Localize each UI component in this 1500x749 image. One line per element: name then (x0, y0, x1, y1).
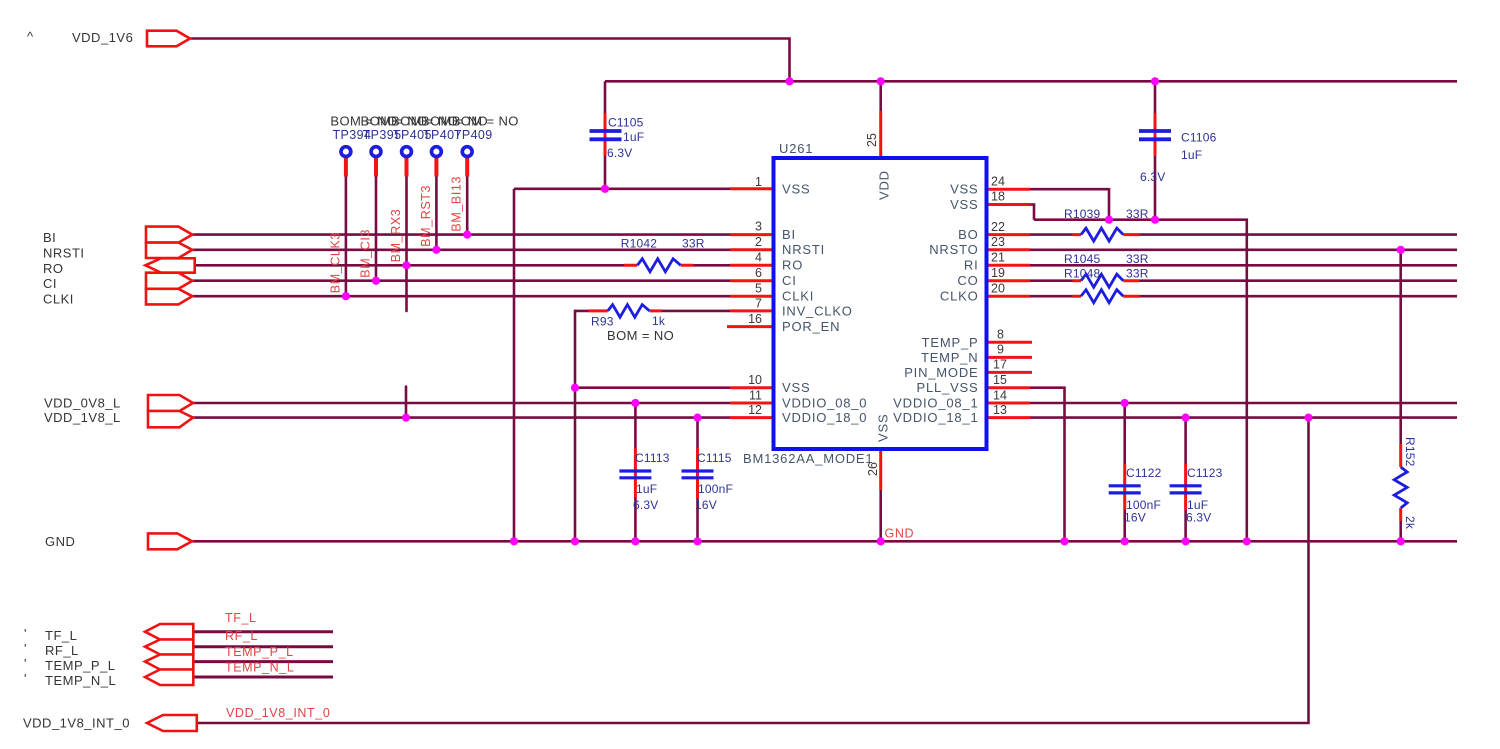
wire PLL_VSS net (1030, 388, 1065, 542)
junction C1106 top (1151, 77, 1159, 85)
svg-text:16V: 16V (695, 498, 717, 512)
port RF_L (145, 640, 193, 655)
wire C1123 upper leg (1184, 418, 1187, 464)
junction C1123 top (1182, 414, 1190, 422)
svg-text:CLKI: CLKI (43, 292, 74, 307)
svg-text:INV_CLKO: INV_CLKO (782, 304, 853, 319)
svg-text:U261: U261 (779, 141, 813, 156)
junction VSS24 corner (1105, 216, 1113, 224)
port GND (148, 533, 192, 549)
pin 3 stub (730, 233, 774, 236)
wire C1115 lower leg (696, 498, 699, 541)
wire top VDD bus (605, 80, 1457, 83)
capacitor C1105 (590, 131, 622, 139)
wire TP407 vertical (435, 175, 438, 250)
port TEMP_P_L (145, 655, 193, 670)
port CLKI (146, 289, 192, 305)
pin 11 stub (730, 402, 774, 405)
svg-text:TP409: TP409 (454, 128, 493, 142)
junction C1105 bottom (601, 185, 609, 193)
junction VDD pin25 (877, 77, 885, 85)
testpoint TP394 (341, 147, 351, 157)
svg-text:GND: GND (45, 534, 75, 549)
svg-text:6.3V: 6.3V (1140, 170, 1166, 184)
R152 leads (1399, 444, 1402, 521)
junction GND VSS bus (1243, 537, 1251, 545)
svg-text:6.3V: 6.3V (633, 498, 659, 512)
wire TP395 vertical (375, 175, 378, 281)
pin 10 stub (730, 386, 774, 389)
svg-text:RI: RI (964, 258, 979, 273)
wire C1106 lower leg (1154, 156, 1157, 220)
wire pin1 VSS bus (514, 188, 730, 191)
svg-text:1: 1 (755, 175, 762, 189)
wire VSS bus to GND (1034, 220, 1247, 542)
wire pin26 lower leg (879, 490, 882, 541)
svg-text:11: 11 (749, 388, 762, 402)
wire VDDIO_08_1 net (1030, 402, 1457, 405)
svg-text:NRSTO: NRSTO (929, 242, 978, 257)
wire C1123 lower leg (1184, 510, 1187, 541)
svg-text:TEMP_P: TEMP_P (922, 335, 979, 350)
pin 23 stub (987, 248, 1031, 251)
wire RI net (1030, 264, 1457, 267)
svg-text:VDD_0V8_L: VDD_0V8_L (44, 396, 121, 411)
svg-text:VSS: VSS (950, 197, 978, 212)
wire VDD pin25 upper leg (879, 81, 882, 111)
resistor R152 (1394, 467, 1407, 508)
svg-text:TEMP_N_L: TEMP_N_L (45, 673, 116, 688)
svg-text:CLKI: CLKI (782, 289, 814, 304)
wire CLKO net right (1140, 295, 1458, 298)
pin 16 stub POR_EN (727, 325, 774, 328)
wire stub to VDD_1V8_L (405, 387, 408, 418)
svg-text:BI: BI (43, 230, 56, 245)
wire TP405 vertical (405, 175, 408, 311)
port RO (145, 258, 194, 272)
TP395 stub (374, 158, 378, 177)
svg-text:18: 18 (991, 190, 1005, 204)
pin 26 stub VSS (879, 449, 882, 490)
wire VDD_1V8_INT_0 net (197, 418, 1309, 723)
svg-text:R1048: R1048 (1064, 267, 1100, 281)
wire C1115 upper leg (696, 418, 699, 448)
svg-text:RO: RO (43, 261, 64, 276)
svg-text:26: 26 (866, 462, 880, 476)
junction GND C1123 (1182, 537, 1190, 545)
C1106 lead (1154, 113, 1157, 156)
port VDD_1V8_L (148, 411, 193, 427)
svg-text:VDD_1V8_INT_0: VDD_1V8_INT_0 (226, 706, 330, 720)
junction GND pin26 (877, 537, 885, 545)
wire R152 upper leg (1399, 250, 1402, 444)
svg-text:14: 14 (993, 388, 1007, 402)
junction TP394 CLKI (342, 292, 350, 300)
svg-text:BI: BI (782, 227, 796, 242)
svg-text:16: 16 (748, 312, 762, 326)
pin 13 stub (987, 416, 1031, 419)
pin 9 stub TEMP_N (987, 356, 1033, 359)
wire R93 to INV_CLKO (662, 310, 731, 313)
svg-text:24: 24 (991, 175, 1005, 189)
junction VDD_1V6 entry (785, 77, 793, 85)
wire pin10 VSS line (575, 386, 730, 389)
svg-text:CLKO: CLKO (940, 289, 979, 304)
wire R93 left corner (575, 311, 589, 541)
pin 2 stub (730, 248, 774, 251)
wire CLKI net (192, 295, 730, 298)
svg-text:TEMP_N_L: TEMP_N_L (225, 661, 294, 675)
pin 22 stub (987, 233, 1031, 236)
svg-text:100nF: 100nF (698, 482, 733, 496)
wire VDD_1V8_L net (193, 416, 730, 419)
testpoint TP407 (432, 147, 442, 157)
port TEMP_N_L (145, 670, 193, 686)
svg-text:C1123: C1123 (1187, 466, 1223, 480)
svg-text:R1042: R1042 (621, 237, 657, 251)
wire TP409 vertical (466, 175, 469, 235)
svg-text:RF_L: RF_L (225, 629, 258, 643)
pin 24 stub (987, 188, 1031, 191)
pin 14 stub (987, 402, 1031, 405)
testpoint TP395 (371, 147, 381, 157)
svg-text:13: 13 (993, 403, 1007, 417)
IC (774, 158, 987, 449)
svg-text:TF_L: TF_L (225, 611, 257, 625)
svg-text:3: 3 (755, 220, 762, 234)
svg-text:1uF: 1uF (623, 130, 644, 144)
svg-text:16V: 16V (1124, 511, 1146, 525)
svg-text:VSS: VSS (782, 182, 810, 197)
port VDD_0V8_L (148, 395, 193, 411)
junction GND R152 (1397, 537, 1405, 545)
svg-text:C1105: C1105 (608, 116, 644, 130)
pin 5 stub (730, 295, 774, 298)
testpoint TP405 (402, 147, 412, 157)
TP407 stub (434, 158, 438, 177)
junction GND R93 vert (571, 537, 579, 545)
wire VDD_1V6 net (191, 39, 790, 82)
svg-text:VDD_1V8_INT_0: VDD_1V8_INT_0 (23, 716, 130, 731)
svg-text:25: 25 (865, 133, 879, 147)
svg-text:VDDIO_18_0: VDDIO_18_0 (782, 410, 867, 425)
svg-text:RO: RO (782, 258, 803, 273)
svg-text:VDD_1V8_L: VDD_1V8_L (44, 410, 121, 425)
junction TP395 CI (372, 277, 380, 285)
svg-text:23: 23 (991, 235, 1005, 249)
R1042 leads (624, 264, 694, 267)
wire C1122 upper leg (1123, 403, 1126, 464)
resistor R93 (608, 305, 650, 318)
junction TP407 NRSTI (432, 246, 440, 254)
wire C1122 lower leg (1123, 510, 1126, 541)
svg-text:BM_BI13: BM_BI13 (450, 176, 464, 232)
R1045 leads (1073, 279, 1140, 282)
svg-text:': ' (24, 626, 27, 641)
svg-text:15: 15 (993, 373, 1007, 387)
svg-text:BM1362AA_MODE1: BM1362AA_MODE1 (743, 451, 873, 466)
wire C1105 upper leg (604, 81, 607, 113)
svg-text:CO: CO (957, 273, 978, 288)
svg-text:6: 6 (755, 266, 762, 280)
junction GND PLL_VSS (1060, 537, 1068, 545)
svg-text:TEMP_N: TEMP_N (921, 350, 979, 365)
resistor R1039 (1081, 228, 1123, 241)
svg-text:BM_CI3: BM_CI3 (359, 229, 373, 278)
wire GND bus (192, 540, 1457, 543)
svg-text:VSS: VSS (782, 380, 810, 395)
wire C1105 lower leg (604, 156, 607, 189)
svg-text:C1106: C1106 (1181, 131, 1217, 145)
svg-text:33R: 33R (682, 237, 705, 251)
svg-text:': ' (24, 641, 27, 656)
wire CI net (192, 279, 730, 282)
wire RO net right (694, 264, 731, 267)
svg-text:PLL_VSS: PLL_VSS (917, 380, 979, 395)
wire NRSTO net (1030, 249, 1457, 252)
pin 18 stub (987, 203, 1031, 206)
PARTS (341, 131, 1407, 508)
svg-text:': ' (24, 656, 27, 671)
pin 20 stub (987, 295, 1031, 298)
C1105 lead (604, 113, 607, 156)
TP405 stub (405, 158, 409, 177)
svg-text:33R: 33R (1126, 252, 1149, 266)
wire BO net left (1030, 233, 1073, 236)
capacitor C1113 (619, 471, 651, 478)
wire C1113 lower leg (634, 498, 637, 541)
svg-text:21: 21 (991, 251, 1005, 265)
wire BO net right (1140, 233, 1458, 236)
svg-text:GND: GND (885, 527, 915, 541)
svg-text:VDD: VDD (877, 170, 892, 200)
pin 17 stub PIN_MODE (987, 371, 1033, 374)
svg-text:19: 19 (991, 266, 1005, 280)
svg-text:TF_L: TF_L (45, 628, 77, 643)
junction GND C1122 (1121, 537, 1129, 545)
port CI (146, 273, 192, 289)
pin 19 stub (987, 279, 1031, 282)
pin 8 stub TEMP_P (987, 341, 1033, 344)
svg-text:R1045: R1045 (1064, 252, 1100, 266)
junction TP405 RO (402, 261, 410, 269)
R93 leads (589, 309, 662, 312)
wire C1113 upper leg (634, 403, 637, 448)
wire C1106 upper leg (1154, 81, 1157, 113)
svg-text:RF_L: RF_L (45, 643, 79, 658)
wire TEMP_P_L net (195, 660, 334, 663)
wire R152 lower leg (1399, 521, 1402, 541)
wire RO net left (195, 264, 624, 267)
op-amp U1 : IC U261 BM1362AA_MODE1 body (774, 158, 987, 449)
svg-text:VDDIO_08_1: VDDIO_08_1 (893, 396, 978, 411)
port NRSTI (146, 243, 192, 258)
junction C1106 bottom (1151, 216, 1159, 224)
RED STUBS (346, 111, 1401, 521)
port BI (146, 227, 192, 243)
svg-text:5: 5 (755, 282, 762, 296)
resistor R1045 (1081, 274, 1123, 287)
wire TEMP_N_L net (195, 676, 334, 679)
svg-text:1uF: 1uF (636, 482, 657, 496)
R1039 leads (1073, 233, 1140, 236)
svg-text:6.3V: 6.3V (607, 146, 633, 160)
pin 21 stub (987, 264, 1031, 267)
svg-text:': ' (24, 671, 27, 686)
svg-text:VDD_1V6: VDD_1V6 (72, 30, 133, 45)
junction C1115 top (693, 414, 701, 422)
pin 6 stub (730, 279, 774, 282)
svg-text:22: 22 (991, 220, 1005, 234)
svg-text:NRSTI: NRSTI (782, 242, 825, 257)
TP409 stub (465, 158, 469, 177)
svg-text:20: 20 (991, 282, 1005, 296)
svg-text:9: 9 (997, 343, 1004, 357)
wire VSS pin24 net (1030, 189, 1109, 220)
wire TF_L net (195, 630, 334, 633)
pin 25 stub VDD (879, 111, 882, 158)
resistor R1042 (637, 259, 680, 272)
wire CO net right (1140, 279, 1458, 282)
svg-text:17: 17 (993, 358, 1007, 372)
junction GND C1113 (631, 537, 639, 545)
C1122 lead (1123, 464, 1126, 510)
port VDD_1V6 (147, 31, 190, 47)
svg-text:CI: CI (43, 276, 57, 291)
junction R93 VSS (571, 384, 579, 392)
svg-text:BM_RST3: BM_RST3 (419, 185, 433, 247)
pin 4 stub (730, 264, 774, 267)
svg-text:8: 8 (997, 328, 1004, 342)
port VDD_1V8_INT_0 (147, 715, 197, 731)
svg-text:2k: 2k (1403, 516, 1417, 530)
svg-text:4: 4 (755, 251, 762, 265)
resistor R1048 (1081, 290, 1123, 303)
svg-text:NRSTI: NRSTI (43, 245, 85, 260)
svg-text:VDDIO_08_0: VDDIO_08_0 (782, 396, 867, 411)
capacitor C1115 (682, 471, 714, 478)
svg-text:R1039: R1039 (1064, 207, 1100, 221)
R1048 leads (1073, 295, 1140, 298)
svg-text:12: 12 (748, 403, 762, 417)
svg-text:33R: 33R (1126, 207, 1149, 221)
capacitor C1123 (1170, 486, 1202, 493)
svg-text:PIN_MODE: PIN_MODE (904, 365, 978, 380)
wire BI net (192, 233, 730, 236)
svg-text:TEMP_P_L: TEMP_P_L (45, 658, 115, 673)
port TF_L (145, 624, 193, 640)
svg-text:1k: 1k (652, 314, 666, 328)
wire RF_L net (195, 645, 334, 648)
wire NRSTI net (192, 249, 730, 252)
pin 7 stub (730, 309, 774, 312)
svg-text:R93: R93 (591, 315, 614, 329)
junction C1122 top (1121, 399, 1129, 407)
svg-text:BM_CLK3: BM_CLK3 (329, 232, 343, 293)
svg-text:VSS: VSS (876, 414, 891, 442)
svg-text:VDDIO_18_1: VDDIO_18_1 (893, 410, 978, 425)
svg-text:C1122: C1122 (1126, 466, 1162, 480)
svg-text:33R: 33R (1126, 267, 1149, 281)
wire CO net left (1030, 279, 1073, 282)
pin 1 stub (730, 187, 774, 190)
junction R152 NRSTO (1397, 246, 1405, 254)
junction TP409 BI (463, 231, 471, 239)
svg-text:BM_RX3: BM_RX3 (389, 209, 403, 263)
svg-text:10: 10 (748, 373, 762, 387)
svg-text:BOM = NO: BOM = NO (452, 114, 519, 129)
wire VDDIO_18_1 net (1030, 416, 1457, 419)
junction INT0 riser (1304, 414, 1312, 422)
junction GND left vert (510, 537, 518, 545)
wire TP394 vertical (345, 175, 348, 296)
C1113 lead (634, 448, 637, 498)
svg-text:C1113: C1113 (635, 451, 670, 465)
svg-text:6.3V: 6.3V (1186, 511, 1212, 525)
svg-text:CI: CI (782, 273, 797, 288)
svg-text:BOM = NO: BOM = NO (607, 328, 674, 343)
junction C1113 top (631, 399, 639, 407)
wire CLKO net left (1030, 295, 1073, 298)
svg-text:POR_EN: POR_EN (782, 319, 840, 334)
svg-text:7: 7 (755, 297, 762, 311)
svg-text:^: ^ (27, 29, 34, 44)
svg-text:VSS: VSS (950, 182, 978, 197)
pin 12 stub (730, 416, 774, 419)
svg-text:TEMP_P_L: TEMP_P_L (225, 645, 294, 659)
svg-text:R152: R152 (1403, 437, 1417, 467)
svg-text:2: 2 (755, 235, 762, 249)
junction stub VDD_1V8_L (402, 414, 410, 422)
junction GND C1115 (693, 537, 701, 545)
wire left VSS vertical (513, 189, 516, 542)
TP394 stub (344, 158, 348, 177)
C1115 lead (696, 448, 699, 498)
capacitor C1106 (1139, 131, 1171, 139)
PORTS (145, 31, 197, 731)
pin 15 stub PLL_VSS (987, 386, 1031, 389)
wire VDD_0V8_L net (193, 402, 730, 405)
capacitor C1122 (1109, 486, 1141, 493)
testpoint TP409 (462, 147, 472, 157)
svg-text:BO: BO (958, 227, 978, 242)
wire VSS pin18 jog (1030, 205, 1034, 220)
svg-text:C1115: C1115 (697, 451, 732, 465)
C1123 lead (1184, 464, 1187, 510)
svg-text:1uF: 1uF (1181, 148, 1202, 162)
